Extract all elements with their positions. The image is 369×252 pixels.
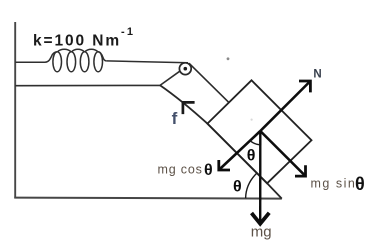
svg-text:mg cos: mg cos <box>158 162 203 176</box>
rope pulley to block <box>189 63 229 102</box>
stray dot <box>227 57 230 60</box>
svg-text:mg sin: mg sin <box>311 177 357 191</box>
spring k <box>45 49 106 72</box>
pulley axle <box>184 67 188 71</box>
bevel corner to pulley <box>160 71 180 85</box>
faint dot <box>251 119 253 121</box>
mg cos component arrow <box>219 131 260 170</box>
svg-text:-1: -1 <box>121 26 135 38</box>
block <box>207 80 311 183</box>
angle arc lower <box>246 173 257 198</box>
wall <box>14 22 16 198</box>
svg-text:θ: θ <box>233 178 242 195</box>
svg-text:θ: θ <box>247 148 256 165</box>
mg sin component arrow <box>260 131 305 176</box>
svg-text:k=100 Nm: k=100 Nm <box>33 33 121 50</box>
svg-text:N: N <box>313 69 321 81</box>
pulley U1 <box>179 63 191 75</box>
wire spring to pulley <box>106 61 188 63</box>
incline <box>160 85 282 198</box>
svg-text:θ: θ <box>204 162 213 179</box>
svg-text:θ: θ <box>355 174 365 194</box>
friction arrowhead f <box>183 102 195 114</box>
normal force N arrow <box>260 81 310 131</box>
svg-text:f: f <box>172 109 178 128</box>
svg-text:mg: mg <box>251 223 272 240</box>
weight mg arrow <box>259 131 261 221</box>
wire wall to spring <box>15 61 45 63</box>
ground <box>14 198 282 199</box>
angle arc upper <box>250 141 260 145</box>
table front edge <box>15 84 160 86</box>
